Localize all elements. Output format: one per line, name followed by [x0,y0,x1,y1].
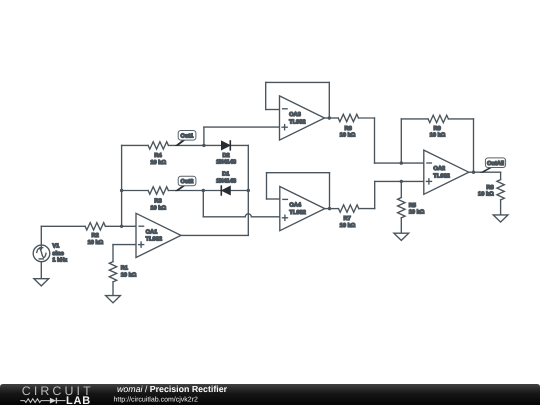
svg-text:D1: D1 [222,172,229,178]
svg-text:http://circuitlab.com/cjvk2r2: http://circuitlab.com/cjvk2r2 [114,395,199,403]
svg-text:R6: R6 [345,126,352,132]
svg-text:10 kΩ: 10 kΩ [121,272,137,279]
svg-text:Out2: Out2 [181,179,194,185]
svg-text:sine: sine [52,250,63,257]
svg-text:D2: D2 [222,153,229,159]
svg-text:TL082: TL082 [289,210,305,216]
svg-text:OA3: OA3 [289,112,301,118]
svg-text:R4: R4 [154,153,162,159]
svg-text:R9: R9 [434,126,441,132]
svg-text:R7: R7 [344,216,351,222]
svg-text:10 kΩ: 10 kΩ [409,208,425,215]
svg-text:R2: R2 [92,233,99,239]
svg-text:10 kΩ: 10 kΩ [478,190,494,197]
svg-text:1N4148: 1N4148 [216,178,236,184]
svg-text:1N4148: 1N4148 [216,160,236,166]
svg-text:R1: R1 [121,266,128,272]
svg-text:10 kΩ: 10 kΩ [340,222,356,229]
svg-text:OA1: OA1 [146,229,158,235]
svg-text:Out1: Out1 [181,134,194,140]
svg-text:LAB: LAB [66,395,91,405]
svg-text:10 kΩ: 10 kΩ [150,159,166,166]
svg-text:TL082: TL082 [146,237,162,243]
svg-text:womai / Precision Rectifier: womai / Precision Rectifier [117,384,228,394]
svg-text:OA2: OA2 [433,166,445,172]
svg-text:TL082: TL082 [289,119,305,125]
svg-text:10 kΩ: 10 kΩ [88,239,104,246]
svg-text:10 kΩ: 10 kΩ [340,132,356,139]
svg-text:1 kHz: 1 kHz [52,257,67,264]
svg-text:TL082: TL082 [433,174,449,180]
svg-text:V1: V1 [52,244,59,250]
svg-text:R5: R5 [409,203,416,209]
svg-text:R8: R8 [486,185,493,191]
svg-text:R3: R3 [154,199,161,205]
svg-text:OutAll: OutAll [487,160,504,167]
svg-text:10 kΩ: 10 kΩ [430,132,446,139]
svg-text:OA4: OA4 [289,203,302,209]
svg-text:10 kΩ: 10 kΩ [150,204,166,211]
